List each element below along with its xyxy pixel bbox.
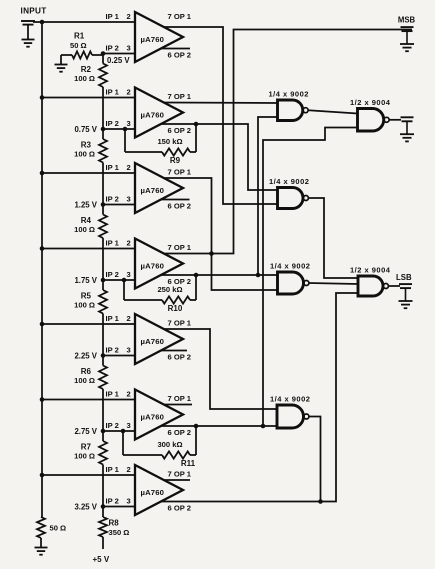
wire comp1 OP1 to gate G3 input 2 [164,27,278,204]
svg-text:3: 3 [127,270,131,279]
svg-text:µA760: µA760 [141,337,165,346]
svg-text:100 Ω: 100 Ω [74,452,95,461]
wire input bus tap to comparator 5 IP1 [42,323,135,325]
wire gate G5 output to comp7 OP2 net [309,417,321,502]
svg-text:LSB: LSB [396,273,412,282]
node 3.25 V tap [101,504,106,509]
wire comp6 OP2 up to gate G2 input 2 [263,128,358,427]
svg-text:R8: R8 [109,519,120,528]
wire ladder tap 1.75 V to comparator 4 IP2 [103,279,135,281]
ground input termination ground [35,547,48,549]
svg-text:R1: R1 [74,32,85,41]
node 0.25 V tap [101,51,106,56]
node junction comp6 OP2 branch [261,424,266,429]
wire input bus tap to comparator 2 IP1 [42,97,135,99]
ground input cap ground [22,39,35,41]
wire comp2 OP2 to gate G3 input 1 [161,124,278,190]
node 1.25 V tap [101,202,106,207]
wire input bus vertical [41,22,43,517]
resistor R6 100 ohm ladder [102,356,104,366]
svg-text:µA760: µA760 [141,35,165,44]
node input bus junction comp6 [40,397,45,402]
svg-text:µA760: µA760 [141,262,165,271]
svg-text:2: 2 [127,314,131,323]
resistor R8 350 ohm [102,507,104,518]
node 2.25 V tap [101,353,106,358]
wire ladder tap 2.75 V to comparator 6 IP2 [103,430,135,432]
svg-text:1/4 x 9002: 1/4 x 9002 [270,395,310,404]
svg-text:350 Ω: 350 Ω [109,528,130,537]
wire input bus tap to comparator 7 IP1 [42,474,135,476]
svg-text:1/4 x 9002: 1/4 x 9002 [270,262,310,271]
ground R1 ground [55,64,68,66]
svg-text:2: 2 [127,390,131,399]
svg-text:µA760: µA760 [141,111,165,120]
wire ladder tap 1.25 V to comparator 3 IP2 [103,204,135,206]
svg-text:1/2 x 9004: 1/2 x 9004 [350,98,391,107]
svg-text:3: 3 [127,44,131,53]
capacitor MSB load cap [401,26,414,28]
svg-text:100 Ω: 100 Ω [74,301,95,310]
svg-text:µA760: µA760 [141,488,165,497]
resistor R10 250 kohm feedback comp4 [162,296,190,303]
op-amp U6 uA760 comparator 6 [135,390,183,440]
resistor 50 ohm input termination [37,517,45,538]
svg-text:IP 2: IP 2 [106,44,119,53]
wire ladder tap 2.25 V to comparator 5 IP2 [103,355,135,357]
svg-text:IP 1: IP 1 [106,239,120,248]
gate G1 1/4 x 9002 NAND top [278,100,303,121]
wire comp4 OP1 to MSB [164,30,412,254]
svg-text:100 Ω: 100 Ω [74,225,95,234]
svg-text:6 OP 2: 6 OP 2 [168,202,192,211]
svg-text:2: 2 [127,465,131,474]
wire comp3 OP2 stub [161,199,190,201]
svg-text:IP 1: IP 1 [106,88,120,97]
svg-text:2.75 V: 2.75 V [74,427,97,436]
resistor R5 100 ohm ladder [102,280,104,290]
svg-text:+5 V: +5 V [93,555,110,564]
svg-text:0.75 V: 0.75 V [74,125,97,134]
svg-text:100 Ω: 100 Ω [74,74,95,83]
svg-text:R11: R11 [181,459,196,468]
wire comp4 OP2 to gate G4 input 1 [161,274,278,276]
gate G4 1/4 x 9002 NAND [278,272,304,294]
resistor R7 100 ohm ladder [102,431,104,441]
node input bus junction comp5 [40,322,45,327]
op-amp U4 uA760 comparator 4 [135,239,183,289]
svg-text:µA760: µA760 [141,186,165,195]
wire gate G4 output to gate G6 input 2 [309,283,358,284]
node junction gate G5 output / comp7 OP2 [318,499,323,504]
wire comp5 OP2 stub [161,350,187,352]
node input bus junction comp3 [40,171,45,176]
svg-text:7 OP 1: 7 OP 1 [168,243,192,252]
svg-text:R2: R2 [81,65,92,74]
node input bus junction comp7 [40,473,45,478]
svg-text:6 OP 2: 6 OP 2 [168,504,192,513]
svg-text:R5: R5 [81,292,92,301]
svg-text:IP 2: IP 2 [106,421,119,430]
svg-text:7 OP 1: 7 OP 1 [168,92,192,101]
wire ladder tap 0.75 V to comparator 2 IP2 [103,128,135,130]
svg-text:1.75 V: 1.75 V [74,276,97,285]
wire INPUT node to comparator 1 IP1 [33,21,135,23]
svg-text:7 OP 1: 7 OP 1 [168,470,192,479]
op-amp U7 uA760 comparator 7 [135,465,183,515]
svg-text:6 OP 2: 6 OP 2 [168,353,192,362]
wire comp5 OP1 to gate G5 input 1 [164,329,277,409]
svg-text:300 kΩ: 300 kΩ [157,440,182,449]
svg-text:250 kΩ: 250 kΩ [157,285,182,294]
svg-text:IP 1: IP 1 [106,314,120,323]
svg-text:IP 1: IP 1 [106,390,120,399]
resistor R2 100 ohm ladder [102,54,104,64]
svg-text:R10: R10 [168,304,183,313]
svg-text:2: 2 [127,88,131,97]
svg-text:IP 1: IP 1 [106,12,120,21]
resistor R3 100 ohm ladder [102,129,104,139]
svg-text:1.25 V: 1.25 V [74,201,97,210]
gate G6 1/2 x 9004 NAND LSB [358,276,383,296]
svg-text:3: 3 [127,346,131,355]
wire gate G2 output to LSB-1 terminal cap [389,119,401,121]
svg-text:IP 2: IP 2 [106,270,119,279]
svg-text:R4: R4 [81,216,92,225]
svg-text:50 Ω: 50 Ω [70,41,87,50]
node 0.75 V tap [101,127,106,132]
svg-text:IP 1: IP 1 [106,465,120,474]
svg-text:R6: R6 [81,367,92,376]
svg-text:1/4 x 9002: 1/4 x 9002 [269,90,309,99]
node 1.75 V tap [101,278,106,283]
resistor R11 300 kohm feedback comp6 [162,451,190,458]
svg-text:R7: R7 [81,443,92,452]
svg-text:7 OP 1: 7 OP 1 [168,12,192,21]
op-amp U2 uA760 comparator 2 [135,88,183,138]
wire comp1 OP2 stub [161,48,190,50]
svg-text:6 OP 2: 6 OP 2 [168,51,192,60]
wire input bus tap to comparator 6 IP1 [42,399,135,401]
svg-text:3: 3 [127,195,131,204]
svg-text:3: 3 [127,421,131,430]
op-amp U3 uA760 comparator 3 [135,163,183,213]
wire input bus tap to comparator 3 IP1 [42,172,135,174]
svg-text:R3: R3 [81,141,92,150]
node junction comp3 OP1 / comp4 OP1 [209,251,214,256]
node input bus junction comp1 [40,20,45,25]
svg-text:7 OP 1: 7 OP 1 [168,319,192,328]
capacitor LSB load cap [399,283,412,285]
svg-text:50 Ω: 50 Ω [50,524,67,533]
svg-text:2: 2 [127,239,131,248]
wire ladder tap 3.25 V to comparator 7 IP2 [103,506,135,508]
svg-text:3: 3 [127,497,131,506]
svg-text:6 OP 2: 6 OP 2 [168,428,192,437]
wire comp2 OP1 to gate G1 input 1 [164,102,278,105]
svg-text:7 OP 1: 7 OP 1 [168,168,192,177]
svg-text:0.25 V: 0.25 V [107,56,130,65]
wire gate G3 output to gate G6 input 1 [308,198,358,278]
capacitor input coupling cap [21,20,35,22]
gate G2 1/2 x 9004 NAND MSB-1 [358,109,384,132]
wire comp3 OP1 down to MSB net and gate G4 input 2 [164,178,278,290]
svg-text:7 OP 1: 7 OP 1 [168,394,192,403]
gate G3 1/4 x 9002 NAND middle [278,188,304,209]
wire gate G1 output to gate G2 input 1 [308,110,357,113]
wire gate G6 output to LSB terminal [388,285,400,287]
svg-text:IP 2: IP 2 [106,195,119,204]
svg-text:2.25 V: 2.25 V [74,352,97,361]
node 2.75 V tap [101,429,106,434]
wire comp4 OP2 up to gate G1 input 2 [258,117,278,275]
svg-text:100 Ω: 100 Ω [74,150,95,159]
svg-text:µA760: µA760 [141,413,165,422]
svg-text:R9: R9 [170,156,181,165]
op-amp U1 uA760 comparator 1 [135,12,183,62]
svg-text:IP 2: IP 2 [106,346,119,355]
gate G5 1/4 x 9002 NAND bottom [277,405,304,428]
wire ladder tap 0.25 V to comparator 1 IP2 [103,53,135,55]
node junction comp4 OP2 / gate G1 input 2 [256,273,261,278]
svg-text:IP 2: IP 2 [106,119,119,128]
svg-text:1/2 x 9004: 1/2 x 9004 [350,266,391,275]
svg-text:INPUT: INPUT [21,7,47,16]
svg-text:2: 2 [127,12,131,21]
node input bus junction comp4 [40,246,45,251]
wire comp6 OP1 stub [164,404,192,406]
wire comp6 OP2 to gate G5 input 2 [161,425,277,427]
svg-text:6 OP 2: 6 OP 2 [168,126,192,135]
wire comp7 OP1 stub [164,479,190,481]
svg-text:3.25 V: 3.25 V [74,503,97,512]
svg-text:IP 1: IP 1 [106,163,120,172]
svg-text:1/4 x 9002: 1/4 x 9002 [269,177,309,186]
capacitor gate G2 output load cap [401,116,414,118]
svg-text:MSB: MSB [398,16,416,25]
svg-text:100 Ω: 100 Ω [74,376,95,385]
resistor R9 150 kohm feedback comp2 [162,148,190,155]
resistor R4 100 ohm ladder [102,205,104,215]
node input bus junction comp2 [40,95,45,100]
wire comp7 OP2 to gate G6 input 3 [161,293,358,502]
svg-text:IP 2: IP 2 [106,497,119,506]
wire input bus tap to comparator 4 IP1 [42,248,135,250]
svg-text:2: 2 [127,163,131,172]
svg-text:150 kΩ: 150 kΩ [157,137,182,146]
svg-text:3: 3 [127,119,131,128]
op-amp U5 uA760 comparator 5 [135,314,183,364]
